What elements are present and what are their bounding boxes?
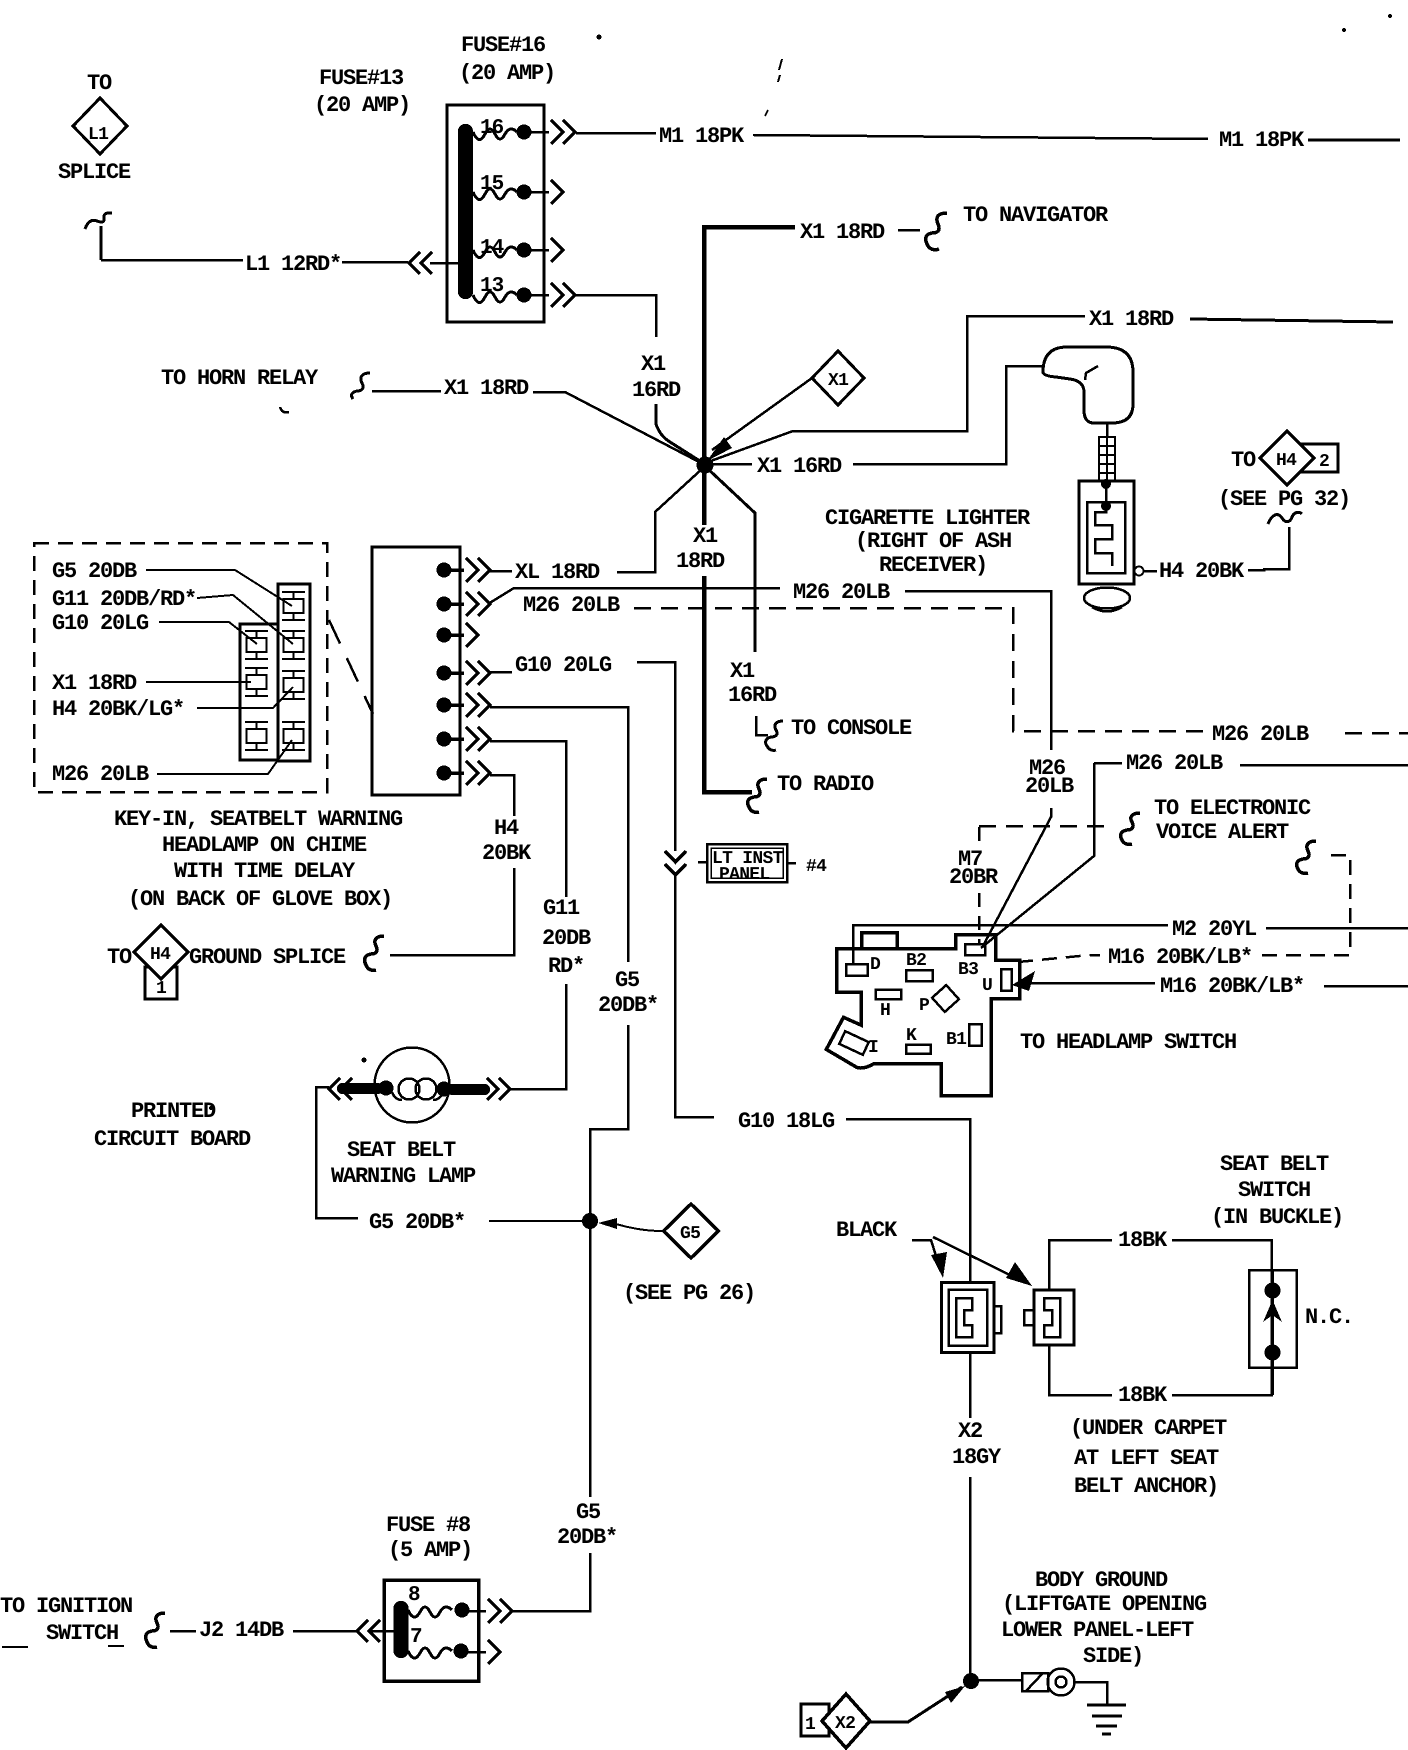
wire M26 solid diagonal to B3 — [983, 808, 1051, 946]
svg-text:TO HEADLAMP SWITCH: TO HEADLAMP SWITCH — [1020, 1030, 1236, 1055]
svg-text:I: I — [868, 1038, 878, 1058]
wire M16 dashed right — [1262, 855, 1350, 955]
svg-text:SWITCH: SWITCH — [1238, 1178, 1310, 1203]
svg-text:FUSE#13: FUSE#13 — [319, 66, 404, 91]
svg-text:H4 20BK/LG*: H4 20BK/LG* — [52, 697, 184, 722]
ground strap box — [1022, 1673, 1048, 1691]
wire diamond X1 to junction — [712, 378, 812, 450]
lamp right chevrons >> — [487, 1078, 510, 1100]
svg-text:7: 7 — [410, 1626, 422, 1649]
wire X2 below connector — [969, 1353, 972, 1419]
svg-text:FUSE #8: FUSE #8 — [386, 1513, 471, 1538]
svg-text:B1: B1 — [946, 1030, 967, 1050]
lighter handle detail — [1085, 366, 1098, 380]
svg-text:X2: X2 — [835, 1714, 855, 1734]
svg-text:(20 AMP): (20 AMP) — [314, 93, 410, 118]
svg-text:N.C.: N.C. — [1305, 1305, 1353, 1330]
svg-text:(LIFTGATE OPENING: (LIFTGATE OPENING — [1002, 1592, 1207, 1617]
scan speck top — [597, 35, 602, 40]
svg-text:LOWER PANEL-LEFT: LOWER PANEL-LEFT — [1001, 1618, 1194, 1643]
svg-text:X1: X1 — [693, 524, 718, 549]
svg-text:20DB*: 20DB* — [598, 993, 658, 1018]
svg-text:U: U — [982, 976, 992, 996]
lighter base ellipse — [1084, 588, 1130, 609]
arrowhead black left — [931, 1252, 947, 1278]
leader BLACK to right connector — [933, 1237, 1012, 1276]
fuse 8 arrow >> — [488, 1599, 512, 1623]
svg-text:L1: L1 — [88, 125, 109, 145]
svg-text:X1 18RD: X1 18RD — [444, 376, 529, 401]
svg-text:SIDE): SIDE) — [1083, 1644, 1143, 1669]
svg-text:RECEIVER): RECEIVER) — [879, 553, 987, 578]
switch contact dot top — [1265, 1283, 1281, 1299]
lamp left chevrons << — [329, 1078, 352, 1100]
svg-text:G11 20DB/RD*: G11 20DB/RD* — [52, 587, 196, 612]
fuse 7 terminal dot — [454, 1644, 469, 1659]
lighter base lip — [1092, 607, 1122, 612]
wire 18BK bottom left — [1049, 1345, 1112, 1395]
ground symbol — [1087, 1705, 1126, 1734]
svg-text:TO NAVIGATOR: TO NAVIGATOR — [963, 203, 1109, 228]
pin dot 2 — [437, 597, 452, 612]
svg-text:WARNING LAMP: WARNING LAMP — [331, 1164, 476, 1189]
svg-text:H4 20BK: H4 20BK — [1159, 559, 1245, 584]
svg-text:AT LEFT SEAT: AT LEFT SEAT — [1074, 1446, 1219, 1471]
squiggle console — [766, 721, 783, 750]
wire M26 second vertical and diagonal to B3 — [981, 763, 1094, 948]
pin B1 — [969, 1024, 982, 1046]
pin symbol R4 — [282, 722, 305, 750]
svg-text:BODY GROUND: BODY GROUND — [1035, 1568, 1168, 1593]
squiggle ground splice — [365, 936, 384, 970]
arrowhead black right — [1006, 1262, 1032, 1286]
wire X1 16RD southeast branch — [707, 468, 755, 652]
svg-text:PANEL: PANEL — [719, 865, 770, 885]
fuse 8 terminal dot — [455, 1603, 470, 1618]
svg-text:G5: G5 — [680, 1224, 700, 1244]
diamond H4 ground splice — [134, 925, 188, 979]
fuse 8 output wire — [462, 1610, 486, 1613]
svg-text:M1 18PK: M1 18PK — [1219, 128, 1305, 153]
arrow chevrons into fuse (<<) — [409, 252, 432, 274]
wire M26 dashed main — [634, 608, 1205, 731]
svg-text:20BR: 20BR — [949, 865, 999, 890]
svg-text:18RD: 18RD — [676, 549, 725, 574]
fuse 14 terminal dot — [517, 243, 532, 258]
wire M26 solid to corner — [905, 591, 1051, 750]
dash left of LT INST box — [698, 861, 706, 864]
fuse 8 element — [408, 1607, 452, 1617]
svg-text:SEAT BELT: SEAT BELT — [1220, 1152, 1329, 1177]
wire horn relay to label — [372, 390, 441, 393]
wire M1 18PK long — [753, 135, 1208, 139]
svg-text:TO: TO — [87, 71, 112, 96]
lighter stem tick — [1106, 423, 1109, 437]
fuse 13 output wire — [524, 294, 549, 297]
svg-text:20DB: 20DB — [542, 926, 591, 951]
seat belt connector right outer — [1034, 1290, 1074, 1345]
lamp right dot — [437, 1082, 452, 1097]
connector top bump — [862, 933, 898, 949]
pin dot 3 — [437, 628, 452, 643]
fuse 14 output wire — [524, 249, 549, 252]
fuse 16 terminal dot — [517, 125, 532, 140]
box 1 at H4 ground splice — [145, 967, 177, 999]
connector C1 left column — [240, 624, 278, 760]
svg-text:L1 12RD*: L1 12RD* — [245, 252, 341, 277]
svg-text:TO RADIO: TO RADIO — [777, 772, 874, 797]
wire navigator label to squiggle — [898, 229, 920, 232]
wire H4 from pin7 — [490, 775, 514, 816]
svg-text:H4: H4 — [150, 945, 171, 965]
wire M1 18PK from fuse 16 — [576, 132, 656, 135]
diamond X2 — [822, 1694, 870, 1748]
fuse 15 terminal dot — [517, 185, 532, 200]
svg-text:SPLICE: SPLICE — [58, 160, 131, 185]
pin P diamond — [932, 985, 959, 1012]
svg-text:SWITCH: SWITCH — [46, 1621, 118, 1646]
box 2 at H4 — [1300, 444, 1338, 472]
pin 6 wire and arrow >> — [444, 727, 490, 751]
svg-text:G10 20LG: G10 20LG — [52, 611, 149, 636]
ground node dot — [963, 1673, 979, 1689]
pin 5 wire and arrow >> — [444, 693, 490, 717]
svg-text:16: 16 — [480, 117, 504, 140]
wire X1 18RD to navigator — [704, 227, 795, 462]
pin symbol L1 — [245, 631, 268, 659]
leader G5 to pin R1 — [146, 570, 292, 606]
fuse 15 arrow > — [551, 180, 563, 204]
wire M7 dashed vertical — [978, 827, 981, 846]
wire M26 20LB second solid elbow — [1094, 762, 1122, 765]
wire G5 from node down — [589, 1229, 592, 1497]
svg-text:M26 20LB: M26 20LB — [523, 593, 620, 618]
svg-text:X1 16RD: X1 16RD — [757, 454, 842, 479]
seat belt warning lamp circle — [375, 1048, 450, 1123]
svg-text:J2 14DB: J2 14DB — [199, 1618, 284, 1643]
wire X1 18RD south to radio — [704, 576, 752, 792]
svg-text:VOICE ALERT: VOICE ALERT — [1156, 820, 1289, 845]
svg-text:TO: TO — [1231, 448, 1256, 473]
svg-text:2: 2 — [1319, 452, 1329, 472]
bracket from H4 label — [1248, 527, 1289, 570]
svg-text:20LB: 20LB — [1025, 774, 1074, 799]
svg-text:(ON BACK OF GLOVE BOX): (ON BACK OF GLOVE BOX) — [128, 887, 392, 912]
svg-text:PRINTED: PRINTED — [131, 1099, 216, 1124]
pin dot 7 — [437, 766, 452, 781]
svg-text:M26 20LB: M26 20LB — [1212, 722, 1309, 747]
wire to H4 20BK label — [1144, 570, 1157, 573]
arrowhead at U pin — [1012, 971, 1035, 991]
lighter stem dot lower — [1101, 501, 1111, 511]
svg-text:20DB*: 20DB* — [557, 1525, 617, 1550]
wire M16 solid from U pin — [1020, 982, 1155, 985]
lighter stem dot upper — [1101, 479, 1111, 489]
wire pin1 label to junction branch — [617, 512, 655, 572]
LT INST PANEL box inner line — [711, 848, 783, 878]
pin B3 — [965, 944, 985, 955]
svg-text:X1: X1 — [641, 352, 666, 377]
seat belt connector left clip — [956, 1298, 972, 1337]
svg-text:CIGARETTE LIGHTER: CIGARETTE LIGHTER — [825, 506, 1031, 531]
fuse 7 arrow > — [488, 1640, 500, 1664]
wire lamp left down — [316, 1087, 358, 1218]
squiggle at splice wire — [85, 213, 112, 229]
wire M26 solid right to edge — [1240, 764, 1408, 767]
wire arrow to G5 diamond — [616, 1224, 662, 1231]
svg-text:HEADLAMP ON CHIME: HEADLAMP ON CHIME — [162, 833, 367, 858]
pin 2 wire and arrow >> — [444, 592, 490, 616]
wire X1 18RD diagonal to junction — [533, 392, 703, 464]
fuse 16 arrow >> — [551, 120, 575, 144]
switch contact dot bottom — [1265, 1345, 1281, 1361]
pin D — [846, 964, 867, 976]
fuse 16 output wire — [524, 131, 549, 134]
svg-text:WITH TIME DELAY: WITH TIME DELAY — [174, 859, 356, 884]
small curl under horn relay — [280, 407, 289, 412]
svg-text:(SEE PG 32): (SEE PG 32) — [1218, 487, 1350, 512]
svg-text:SEAT BELT: SEAT BELT — [347, 1138, 456, 1163]
arrowhead to ground node — [945, 1686, 965, 1703]
wire X1 18RD top right branch — [708, 316, 1085, 462]
diamond X1 — [812, 351, 864, 405]
svg-text:X1: X1 — [828, 371, 849, 391]
lighter body outer — [1079, 481, 1134, 584]
lamp left thick lead — [337, 1083, 383, 1094]
fuse 13 arrow >> — [551, 283, 575, 307]
wire terminal to ground — [1075, 1682, 1107, 1704]
leader G10 to pin L1 — [159, 622, 257, 644]
squiggle ignition — [146, 1613, 165, 1647]
ground terminal circle — [1048, 1669, 1075, 1696]
svg-text:D: D — [870, 955, 881, 975]
svg-text:TO IGNITION: TO IGNITION — [0, 1594, 132, 1619]
squiggle radio — [748, 779, 767, 812]
svg-text:14: 14 — [480, 237, 504, 260]
pin 7 wire and arrow >> — [444, 761, 490, 785]
lighter stem wire — [1105, 481, 1108, 502]
wire X1 18RD south branch — [702, 468, 707, 525]
fuse block F8 box — [384, 1580, 479, 1681]
node G5 dot — [582, 1213, 598, 1229]
leader BLACK to left connector — [912, 1240, 936, 1256]
arrowhead at G5 node — [598, 1218, 617, 1229]
pin H — [876, 990, 902, 1000]
svg-text:FUSE#16: FUSE#16 — [461, 33, 545, 58]
fuse block bus bar — [458, 124, 473, 299]
lighter stem hatched — [1099, 437, 1115, 481]
svg-text:GROUND SPLICE: GROUND SPLICE — [189, 945, 346, 970]
pin B2 — [906, 970, 933, 981]
seat belt connector left inner — [949, 1290, 988, 1346]
svg-text:8: 8 — [408, 1584, 420, 1607]
svg-text:M26 20LB: M26 20LB — [1126, 751, 1223, 776]
svg-text:G5: G5 — [576, 1500, 601, 1525]
svg-text:H4: H4 — [1276, 451, 1297, 471]
svg-text:H: H — [880, 1001, 890, 1021]
fuse 7 output wire — [461, 1651, 486, 1654]
connector C1 right column — [278, 584, 310, 761]
scan marks right top — [765, 59, 782, 116]
svg-text:M26 20LB: M26 20LB — [52, 762, 149, 787]
fuse 14 arrow > — [551, 238, 563, 262]
wire M1 18PK to edge — [1308, 139, 1400, 142]
wire X2 to ground node — [969, 1477, 972, 1674]
svg-text:K: K — [906, 1026, 917, 1046]
pin 1 wire and arrow >> — [444, 558, 490, 582]
svg-text:(20 AMP): (20 AMP) — [459, 61, 555, 86]
wire M16 solid to edge — [1324, 985, 1408, 988]
svg-text:15: 15 — [480, 173, 504, 196]
stray dashes lower left — [2, 1646, 124, 1647]
svg-text:B3: B3 — [958, 960, 978, 980]
svg-text:1: 1 — [805, 1715, 816, 1735]
wire L1 12RD* horizontal — [101, 259, 243, 262]
node X1 junction dot — [697, 457, 714, 474]
wire G11 below label — [510, 984, 566, 1089]
svg-text:CIRCUIT BOARD: CIRCUIT BOARD — [94, 1127, 251, 1152]
svg-text:X1 18RD: X1 18RD — [800, 220, 885, 245]
module dashed box (key-in chime) — [34, 543, 327, 792]
wire label to fuse arrow — [342, 261, 408, 264]
pin 4 wire and arrow >> — [444, 661, 490, 685]
scan speck near PRINTED — [209, 1106, 213, 1110]
svg-text:M1 18PK: M1 18PK — [659, 124, 745, 149]
switch plunger arrowhead — [1263, 1300, 1282, 1322]
wire G10 label to vertical — [637, 662, 675, 851]
box 1 at X2 — [801, 1704, 829, 1736]
fuse 14 element — [473, 247, 517, 258]
svg-text:G5 20DB: G5 20DB — [52, 559, 137, 584]
wire G5 below label — [590, 1025, 628, 1213]
LT INST PANEL box outer — [707, 844, 787, 882]
wire G10 18LG to seat belt connector — [846, 1119, 970, 1281]
fuse 13 terminal dot — [517, 288, 532, 303]
svg-text:M16 20BK/LB*: M16 20BK/LB* — [1160, 974, 1304, 999]
headlamp switch connector outline — [826, 935, 1019, 1096]
svg-text:16RD: 16RD — [728, 683, 777, 708]
wire J2 into fuse — [368, 1630, 394, 1633]
fuse 16 element — [473, 129, 517, 140]
chevrons down on G10 wire — [665, 851, 686, 875]
wire 18BK top — [1049, 1240, 1112, 1290]
svg-text:H4: H4 — [494, 816, 519, 841]
leader X1 to pin L2 — [146, 681, 251, 683]
dashed link module to connector — [329, 620, 373, 714]
squiggle H4 up — [1268, 512, 1302, 524]
pin dot 6 — [437, 732, 452, 747]
wire dashed to voice alert — [979, 825, 1113, 828]
scan speck near lamp — [362, 1058, 367, 1063]
splice L1 diamond — [73, 98, 127, 154]
svg-text:G11: G11 — [543, 896, 580, 921]
svg-text:X1 18RD: X1 18RD — [1089, 307, 1174, 332]
wire G5 label to fuse8 — [512, 1553, 590, 1611]
bracket to console — [756, 716, 768, 735]
svg-text:(UNDER CARPET: (UNDER CARPET — [1070, 1416, 1227, 1441]
svg-text:X2: X2 — [958, 1419, 982, 1444]
svg-text:M2 20YL: M2 20YL — [1172, 917, 1257, 942]
wire M7 dashed lower — [978, 893, 981, 944]
svg-text:(5 AMP): (5 AMP) — [388, 1538, 472, 1563]
pin K — [906, 1045, 931, 1054]
svg-text:TO CONSOLE: TO CONSOLE — [791, 716, 912, 741]
fuse 13 element — [473, 292, 517, 303]
seat belt switch box — [1249, 1270, 1297, 1368]
lighter element zigzag — [1095, 506, 1112, 566]
svg-text:TO: TO — [107, 945, 132, 970]
svg-text:18GY: 18GY — [952, 1445, 1002, 1470]
wire M16 dashed from U pin — [1018, 955, 1100, 962]
svg-text:B2: B2 — [906, 951, 926, 971]
seat belt connector left outer — [942, 1283, 995, 1353]
svg-text:X1: X1 — [730, 659, 755, 684]
squiggle M16 right — [1297, 841, 1316, 873]
wire J2 label to arrow — [293, 1630, 356, 1633]
arrowhead on X1 diamond wire — [707, 437, 732, 461]
svg-text:G5 20DB*: G5 20DB* — [369, 1210, 465, 1235]
squiggle navigator — [926, 213, 947, 250]
pin I tilted — [839, 1031, 868, 1055]
svg-text:P: P — [919, 996, 930, 1016]
fuse 15 element — [473, 189, 517, 200]
seat belt connector left tab — [994, 1306, 1001, 1333]
pin symbol R3 — [282, 671, 305, 699]
fuse 15 output wire — [524, 191, 549, 194]
wire XL 18RD southwest branch — [620, 468, 703, 572]
svg-text:TO ELECTRONIC: TO ELECTRONIC — [1154, 796, 1311, 821]
wire X1 18RD top right to edge — [1190, 319, 1393, 322]
wire M2 20YL from D pin — [853, 925, 1168, 964]
svg-text:#4: #4 — [806, 857, 827, 877]
svg-text:BLACK: BLACK — [836, 1218, 898, 1243]
arrow << into fuse 8 — [357, 1620, 380, 1642]
wire 18BK top right — [1172, 1240, 1272, 1270]
squiggle horn relay — [352, 373, 370, 399]
svg-text:(SEE PG 26): (SEE PG 26) — [623, 1281, 755, 1306]
pin symbol R2 — [282, 631, 305, 659]
squiggle voice alert — [1121, 813, 1140, 844]
svg-text:(IN BUCKLE): (IN BUCKLE) — [1211, 1205, 1343, 1230]
wire M2 20YL to edge — [1266, 927, 1408, 930]
connector C2 solid box — [372, 547, 460, 795]
wire G5 from pin5 — [490, 707, 628, 962]
svg-text:M16 20BK/LB*: M16 20BK/LB* — [1108, 945, 1252, 970]
lighter body inner — [1087, 502, 1125, 573]
pin symbol L2 — [245, 668, 268, 696]
wire X2 diamond to node — [870, 1687, 962, 1722]
leader H4 to pin R3 — [197, 687, 293, 708]
svg-text:13: 13 — [480, 275, 504, 298]
pin 1 wire to label — [490, 570, 512, 573]
wire from splice down — [100, 226, 103, 260]
wire X1 16RD right branch — [710, 463, 752, 466]
svg-text:M26 20LB: M26 20LB — [793, 580, 890, 605]
pin 4 wire to label — [490, 671, 512, 674]
svg-text:G10 20LG: G10 20LG — [515, 653, 612, 678]
seat belt connector right tab — [1024, 1310, 1034, 1325]
fuse block F8 bus bar — [394, 1601, 409, 1658]
wire G10 vertical below chevrons — [675, 875, 714, 1117]
svg-text:G5: G5 — [615, 968, 640, 993]
lighter terminal circle — [1135, 567, 1144, 576]
wire M26 solid rise — [488, 588, 780, 604]
switch wire through box — [1270, 1270, 1274, 1395]
wire node to strap — [978, 1679, 1022, 1682]
wire G11 from pin6 — [490, 741, 566, 897]
svg-text:TO HORN RELAY: TO HORN RELAY — [161, 366, 319, 391]
diamond H4 — [1260, 431, 1314, 485]
